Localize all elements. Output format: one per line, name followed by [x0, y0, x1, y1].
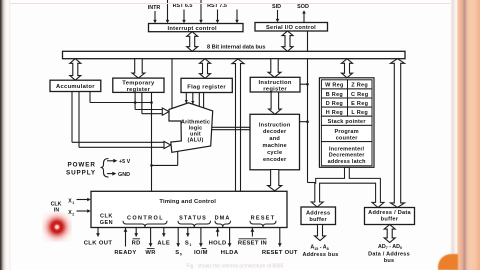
svg-text:HOLD: HOLD [209, 240, 227, 246]
svg-text:Temporary: Temporary [122, 81, 155, 87]
svg-text:Address / Data: Address / Data [368, 210, 411, 216]
svg-text:RESET IN: RESET IN [238, 240, 267, 246]
svg-text:Flag register: Flag register [187, 84, 226, 90]
svg-text:GEN: GEN [100, 220, 113, 226]
svg-text:1: 1 [72, 201, 74, 205]
svg-text:Incrementer/: Incrementer/ [329, 146, 365, 152]
svg-text:DMA: DMA [215, 216, 231, 222]
svg-text:S: S [185, 240, 189, 246]
svg-text:SUPPLY: SUPPLY [66, 170, 96, 177]
svg-text:encoder: encoder [263, 157, 287, 163]
svg-text:S: S [175, 250, 179, 256]
svg-text:Address bus: Address bus [302, 252, 338, 258]
svg-text:1: 1 [189, 243, 191, 247]
svg-text:RD: RD [132, 240, 141, 246]
svg-text:Address: Address [306, 210, 330, 216]
svg-text:D Reg: D Reg [326, 101, 343, 107]
svg-text:IO/M: IO/M [194, 250, 208, 256]
svg-text:ALE: ALE [157, 240, 170, 246]
svg-text:CLK OUT: CLK OUT [84, 240, 113, 246]
svg-text:and: and [269, 136, 280, 142]
svg-text:READY: READY [114, 250, 136, 256]
svg-text:counter: counter [336, 136, 359, 142]
svg-text:E Reg: E Reg [351, 101, 368, 107]
svg-text:Program: Program [335, 129, 359, 135]
svg-text:INTR: INTR [148, 5, 161, 11]
svg-text:WR: WR [145, 250, 156, 256]
svg-text:RESET OUT: RESET OUT [262, 250, 298, 256]
svg-text:CLK: CLK [100, 214, 113, 220]
svg-text:C Reg: C Reg [351, 92, 368, 98]
svg-text:cycle: cycle [267, 150, 282, 156]
svg-text:Accumulator: Accumulator [56, 84, 95, 90]
svg-text:0: 0 [180, 253, 182, 257]
svg-text:HLDA: HLDA [221, 250, 239, 256]
svg-text:+5 V: +5 V [119, 159, 131, 165]
svg-text:STATUS: STATUS [179, 216, 207, 222]
svg-text:Instruction: Instruction [258, 80, 291, 86]
svg-text:Timing and Control: Timing and Control [159, 199, 216, 205]
svg-text:Serial I/O control: Serial I/O control [266, 25, 316, 31]
svg-text:Fig : shows the internal arch: Fig : shows the internal architecture of… [187, 264, 284, 270]
svg-text:AD7 - AD0: AD7 - AD0 [378, 244, 402, 250]
svg-text:decoder: decoder [263, 129, 287, 135]
svg-text:L Reg: L Reg [351, 110, 368, 116]
svg-text:W Reg: W Reg [325, 83, 344, 89]
svg-text:2: 2 [72, 213, 74, 217]
svg-text:Instruction: Instruction [259, 122, 291, 128]
svg-text:buffer: buffer [381, 217, 399, 223]
svg-text:machine: machine [262, 143, 286, 149]
svg-text:SID: SID [272, 4, 281, 10]
svg-text:B Reg: B Reg [326, 92, 343, 98]
svg-text:Z Reg: Z Reg [351, 83, 368, 89]
svg-text:Stack pointer: Stack pointer [328, 119, 367, 125]
svg-text:CONTROL: CONTROL [127, 216, 164, 222]
svg-text:8 Bit internal data bus: 8 Bit internal data bus [207, 45, 265, 51]
svg-text:Decrementer: Decrementer [329, 153, 365, 159]
svg-text:A15 - A8: A15 - A8 [310, 245, 328, 251]
svg-text:Interrupt control: Interrupt control [168, 26, 217, 32]
svg-text:(ALU): (ALU) [188, 138, 204, 144]
svg-text:RESET: RESET [251, 216, 276, 222]
svg-text:buffer: buffer [309, 217, 327, 223]
svg-text:SOD: SOD [297, 4, 309, 10]
svg-text:Data / Address: Data / Address [368, 251, 410, 257]
svg-text:H Reg: H Reg [326, 110, 343, 116]
svg-text:address latch: address latch [328, 159, 367, 165]
svg-text:RST 7.5: RST 7.5 [207, 3, 227, 9]
svg-text:bus: bus [384, 258, 395, 264]
svg-text:GND: GND [118, 172, 130, 178]
svg-text:POWER: POWER [68, 162, 96, 169]
svg-text:register: register [127, 87, 151, 93]
svg-text:RST 6.5: RST 6.5 [173, 3, 193, 9]
